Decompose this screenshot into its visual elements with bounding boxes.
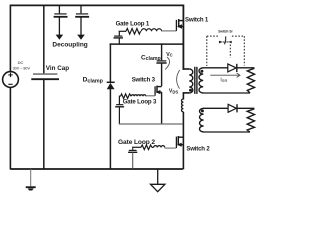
arrow Vc arc xyxy=(165,57,169,69)
svg-text:Cclamp: Cclamp xyxy=(141,54,161,62)
wire gate1 to switch1 xyxy=(162,30,177,32)
svg-text:VC: VC xyxy=(166,52,173,58)
resistor R load1 xyxy=(247,68,254,93)
svg-text:Gate Loop 3: Gate Loop 3 xyxy=(123,98,157,105)
wire output1 bottom xyxy=(203,92,250,94)
diode D1 xyxy=(228,64,237,72)
dc source V1 xyxy=(3,72,19,88)
wire clamp rail upper xyxy=(109,43,111,82)
wire output2 top xyxy=(203,107,228,109)
svg-text:Dclamp: Dclamp xyxy=(83,77,104,85)
inductor secondary 1 xyxy=(199,68,203,93)
arrow Isr xyxy=(210,73,240,77)
resistor R gate1 xyxy=(126,29,141,35)
inductor leakage xyxy=(181,99,183,112)
svg-text:30V ~ 80V: 30V ~ 80V xyxy=(13,66,31,70)
svg-text:Decoupling: Decoupling xyxy=(52,42,87,49)
capacitor Cclamp xyxy=(156,43,166,86)
transformer core xyxy=(195,67,197,94)
box switch sr dashed xyxy=(207,36,245,66)
wire gate2 to switch2 xyxy=(152,146,154,148)
wire output1 top xyxy=(203,67,228,69)
wire gate loop2 lead xyxy=(132,146,141,148)
wire gate loop3 top lead xyxy=(119,95,120,97)
node secondary2 dot xyxy=(201,109,204,112)
svg-text:VDS: VDS xyxy=(169,89,178,95)
wire gate2 lead grey xyxy=(165,147,176,149)
diode D2 xyxy=(228,104,237,112)
svg-text:Gate Loop 1: Gate Loop 1 xyxy=(116,20,150,27)
svg-text:Gate Loop 2: Gate Loop 2 xyxy=(118,139,155,146)
battery gate driver 1 xyxy=(114,31,124,45)
wire vin cap rail lower xyxy=(43,79,45,169)
wire left rail lower xyxy=(9,88,11,170)
ground earth left xyxy=(26,169,36,191)
wire output2 bottom xyxy=(203,131,250,133)
capacitor decoupling C2 xyxy=(75,5,89,40)
inductor secondary 2 xyxy=(200,108,204,132)
transistor switch 1 xyxy=(176,19,183,31)
transistor switch sr mini xyxy=(219,37,232,45)
wire left rail upper xyxy=(9,5,11,72)
wire node edge y44 xyxy=(110,43,184,45)
svg-text:Switch 1: Switch 1 xyxy=(185,16,209,23)
svg-text:Switch Sr: Switch Sr xyxy=(218,30,233,34)
inductor L gate1 xyxy=(141,29,161,32)
transistor switch 2 xyxy=(176,136,183,148)
wire bottom rail xyxy=(10,168,183,170)
resistor R gate3 xyxy=(121,94,132,99)
capacitor Vin Cap xyxy=(31,74,59,79)
wire primary bottom xyxy=(183,92,189,94)
svg-text:Vin Cap: Vin Cap xyxy=(46,65,69,72)
wire vin cap rail upper xyxy=(43,5,45,73)
transistor switch 3 xyxy=(155,86,162,96)
wire primary top xyxy=(183,68,190,70)
wire output1 top right xyxy=(237,67,255,69)
svg-text:Switch 2: Switch 2 xyxy=(186,146,210,153)
wire center to switch2 xyxy=(182,112,184,170)
inductor primary winding xyxy=(189,69,193,93)
wire output2 top right xyxy=(237,107,254,109)
inductor L gate3 xyxy=(131,95,146,96)
wire gate loop3 return grey xyxy=(119,123,183,125)
ground arrow center xyxy=(151,169,165,192)
node secondary1 dot xyxy=(200,70,203,73)
diode Dclamp xyxy=(107,82,115,89)
battery gate driver 3 xyxy=(115,96,124,125)
wire switch3 source down xyxy=(161,92,163,124)
node primary dot xyxy=(189,89,192,92)
label DC 30V~80V xyxy=(13,60,31,70)
arrow Vds arc xyxy=(177,70,180,89)
svg-text:DC: DC xyxy=(18,60,24,65)
wire gate loop 1 lead xyxy=(119,30,126,32)
capacitor decoupling C1 xyxy=(54,5,68,40)
wire clamp rail lower xyxy=(109,89,111,169)
wire gate3 to switch3 xyxy=(146,95,155,97)
wire top rail xyxy=(10,4,183,6)
wire center vertical upper xyxy=(182,5,184,70)
resistor R gate2 xyxy=(141,145,152,150)
battery gate driver 2 xyxy=(128,147,137,169)
svg-text:ISR: ISR xyxy=(220,78,227,84)
resistor R load2 xyxy=(247,109,254,132)
inductor L gate2 xyxy=(154,146,165,148)
wire center below primary xyxy=(182,92,184,99)
svg-text:Switch 3: Switch 3 xyxy=(132,76,156,83)
